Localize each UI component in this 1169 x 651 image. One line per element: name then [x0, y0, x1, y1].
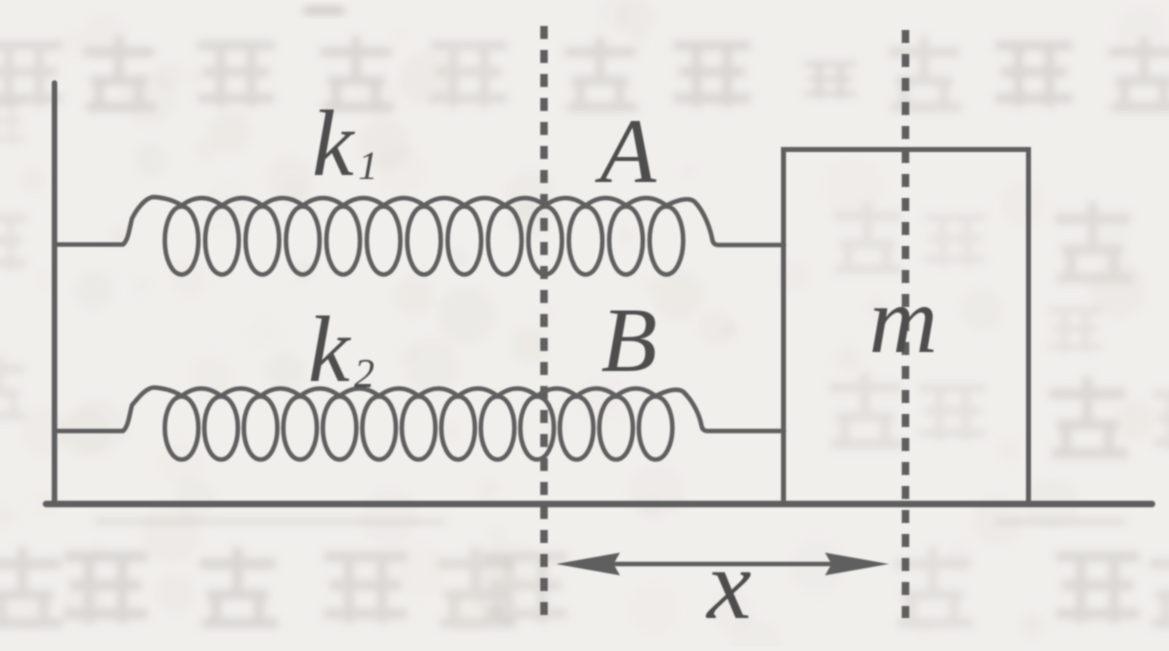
- svg-text:B: B: [601, 289, 657, 391]
- svg-text:1: 1: [358, 143, 378, 188]
- svg-text:k: k: [308, 298, 352, 402]
- svg-text:2: 2: [354, 350, 375, 396]
- svg-text:x: x: [705, 529, 751, 640]
- svg-text:m: m: [869, 267, 938, 373]
- svg-text:A: A: [594, 100, 657, 202]
- svg-text:k: k: [312, 92, 356, 196]
